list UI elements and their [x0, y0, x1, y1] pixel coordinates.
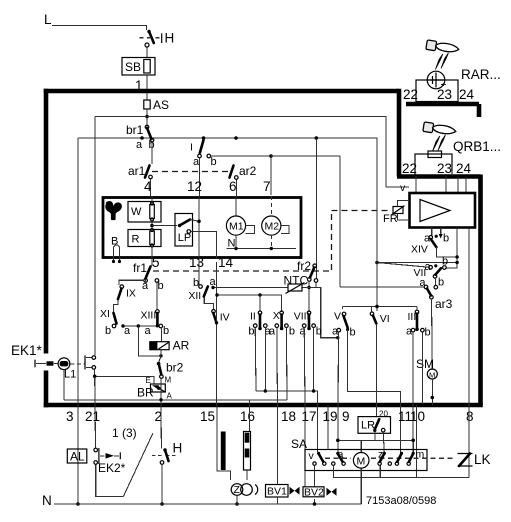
svg-text:ar1: ar1 [128, 164, 146, 178]
svg-text:LK: LK [474, 452, 491, 467]
svg-text:a: a [300, 326, 307, 338]
svg-text:17: 17 [302, 409, 317, 424]
svg-text:BR: BR [137, 386, 154, 400]
svg-text:22: 22 [403, 87, 418, 102]
svg-text:a: a [269, 326, 276, 338]
svg-text:H: H [173, 441, 183, 456]
svg-text:7153a08/0598: 7153a08/0598 [366, 495, 436, 507]
svg-text:Z: Z [234, 484, 241, 496]
svg-text:QRB1...: QRB1... [453, 139, 501, 154]
svg-text:24: 24 [459, 87, 475, 102]
svg-text:a: a [210, 276, 217, 288]
svg-text:BV1: BV1 [267, 486, 287, 498]
svg-text:FR: FR [383, 213, 398, 225]
svg-text:R: R [132, 234, 140, 246]
svg-text:24: 24 [456, 161, 472, 176]
svg-text:M2: M2 [265, 221, 280, 233]
svg-text:b: b [442, 256, 448, 268]
svg-text:b: b [350, 327, 356, 339]
svg-text:M: M [165, 376, 172, 385]
svg-text:9: 9 [342, 409, 350, 424]
svg-text:XIII: XIII [141, 310, 157, 322]
svg-text:A: A [167, 392, 173, 401]
svg-text:ar2: ar2 [239, 164, 257, 178]
svg-text:N: N [42, 493, 52, 508]
svg-text:21: 21 [85, 409, 100, 424]
svg-text:8: 8 [466, 409, 474, 424]
svg-text:b: b [248, 326, 254, 338]
svg-text:SA: SA [291, 437, 307, 451]
svg-text:b: b [211, 156, 217, 168]
svg-text:b: b [158, 280, 164, 292]
svg-text:18: 18 [281, 409, 296, 424]
svg-text:b: b [193, 277, 199, 289]
svg-text:br2: br2 [166, 361, 184, 375]
svg-text:H: H [165, 31, 175, 46]
svg-text:L1: L1 [64, 369, 76, 381]
svg-text:7: 7 [263, 179, 271, 194]
svg-text:b: b [316, 326, 322, 338]
svg-text:X: X [273, 310, 280, 322]
svg-text:IV: IV [220, 312, 230, 324]
svg-text:BV2: BV2 [304, 486, 324, 498]
svg-text:br1: br1 [126, 123, 144, 137]
svg-text:RAR...: RAR... [461, 67, 501, 82]
svg-text:22: 22 [402, 161, 417, 176]
svg-text:13: 13 [189, 255, 204, 270]
svg-text:fr1: fr1 [133, 261, 147, 275]
svg-text:b: b [438, 277, 444, 289]
svg-text:b: b [425, 327, 431, 339]
svg-text:16: 16 [240, 409, 255, 424]
svg-text:a: a [406, 326, 413, 338]
svg-text:6: 6 [229, 179, 237, 194]
svg-text:v: v [309, 450, 315, 462]
svg-text:19: 19 [323, 409, 338, 424]
svg-text:LR: LR [361, 420, 375, 432]
svg-text:b: b [163, 325, 169, 337]
svg-text:EK2*: EK2* [98, 461, 126, 475]
svg-text:XII: XII [188, 290, 201, 302]
svg-text:XI: XI [100, 308, 110, 320]
svg-text:1 (3): 1 (3) [112, 426, 137, 440]
svg-text:M: M [429, 371, 435, 380]
svg-text:W: W [131, 206, 142, 218]
svg-text:23: 23 [437, 161, 452, 176]
svg-text:5: 5 [152, 255, 160, 270]
svg-text:M1: M1 [229, 221, 244, 233]
svg-text:b: b [443, 233, 449, 245]
svg-text:a: a [145, 325, 152, 337]
svg-text:L: L [44, 12, 52, 27]
svg-text:v: v [400, 182, 406, 194]
svg-text:I: I [190, 142, 193, 154]
svg-text:3: 3 [66, 409, 74, 424]
svg-text:XIV: XIV [411, 244, 428, 256]
svg-text:ar3: ar3 [435, 297, 453, 311]
svg-text:4: 4 [144, 179, 152, 194]
svg-text:AR: AR [173, 339, 190, 353]
svg-text:a: a [124, 325, 131, 337]
svg-text:15: 15 [200, 409, 215, 424]
svg-text:II: II [250, 311, 256, 323]
svg-text:23: 23 [437, 87, 452, 102]
svg-text:a: a [136, 139, 143, 151]
svg-text:12: 12 [187, 179, 202, 194]
svg-text:NTC: NTC [284, 274, 309, 288]
svg-text:AS: AS [153, 98, 169, 112]
svg-text:M: M [357, 455, 366, 467]
svg-text:AL: AL [70, 450, 85, 464]
svg-text:IX: IX [126, 288, 136, 300]
svg-text:N: N [228, 238, 236, 250]
svg-text:m: m [416, 449, 425, 461]
svg-text:SB: SB [125, 60, 141, 74]
svg-text:VI: VI [380, 313, 390, 325]
svg-text:V: V [334, 311, 341, 323]
svg-text:b: b [105, 325, 111, 337]
svg-text:10: 10 [410, 409, 425, 424]
svg-text:14: 14 [218, 255, 234, 270]
svg-text:EK1*: EK1* [11, 343, 43, 358]
svg-text:b: b [289, 326, 295, 338]
